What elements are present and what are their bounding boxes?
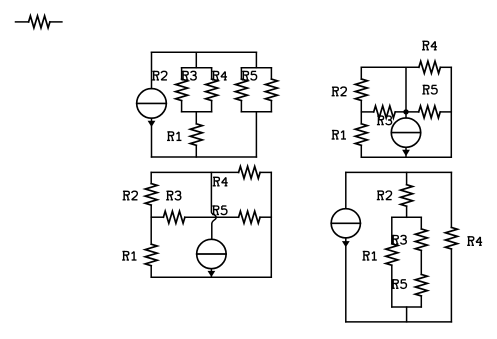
resistor symbol (legend, top-left): [16, 16, 62, 28]
wire (circuit1 loop1 top stub): [195, 52, 197, 68]
wire (circuit2 middle right): [440, 111, 451, 113]
label R3 (circuit4): [392, 235, 407, 244]
arrow (circuit4 source direction): [342, 241, 350, 247]
wire (circuit3 top rail left): [151, 171, 238, 173]
label R5 (circuit3): [212, 206, 227, 215]
resistor R1 (circuit1): [190, 112, 202, 157]
resistor R2 (circuit4): [401, 172, 413, 217]
resistor R4 (circuit4): [445, 172, 457, 322]
label R3 (circuit2): [377, 116, 392, 125]
label R4 (circuit2): [422, 41, 437, 50]
label R4 (circuit4): [467, 237, 482, 246]
resistor R1 (circuit2): [355, 112, 367, 157]
wire (circuit1 loop1 bottom edge): [182, 111, 212, 113]
wire (circuit2 right branch): [450, 67, 452, 157]
wire (circuit2 middle center): [395, 111, 419, 113]
label R5 (circuit1): [242, 71, 257, 80]
wire (circuit2 top rail right): [440, 66, 451, 68]
wire (circuit4 loop top edge): [392, 216, 422, 218]
wire (circuit2 source to bottom): [405, 147, 407, 157]
wire (circuit1 top rail): [152, 51, 257, 53]
resistor R2 (circuit2): [355, 67, 367, 112]
wire (circuit2 top rail left): [361, 66, 419, 68]
resistor R1 (circuit3): [145, 217, 157, 277]
label R2 (circuit1): [152, 71, 167, 80]
wire (circuit3 middle center): [185, 216, 239, 218]
wire (circuit3 source to bottom): [210, 269, 212, 278]
resistor R2 (circuit3): [145, 172, 157, 217]
label R1 (circuit4): [362, 252, 376, 261]
current source I1 (circuit1): [137, 89, 167, 119]
wire (circuit4 left branch lower): [345, 238, 347, 322]
label R4 (circuit1): [212, 71, 227, 80]
resistor R5 (circuit4): [415, 250, 427, 307]
label R2 (circuit3): [123, 191, 138, 200]
wire (circuit1 left branch lower): [151, 118, 153, 157]
resistor R3 (circuit4): [415, 217, 427, 250]
wire (circuit2 middle left): [361, 111, 373, 113]
wire (circuit4 loop bottom stub): [406, 307, 408, 322]
arrow (circuit1 source direction): [148, 121, 156, 127]
wire (circuit4 loop bottom edge): [392, 306, 422, 308]
wire (circuit4 bottom rail): [346, 321, 452, 323]
label R4 (circuit3): [213, 177, 228, 186]
wire (circuit1 loop2 top edge): [241, 67, 271, 69]
label R2 (circuit4): [377, 191, 392, 200]
current source I1 (circuit3): [197, 239, 226, 268]
wire (circuit4 top rail): [346, 171, 452, 173]
resistor R3 (circuit3): [163, 211, 185, 223]
wire (circuit3 top rail right): [260, 171, 271, 173]
label R5 (circuit2): [422, 85, 437, 94]
resistor (circuit1 loop2 right, unlabeled): [265, 68, 277, 112]
wire (circuit2 vertical from top): [405, 67, 407, 112]
wire (circuit1 bottom rail): [152, 156, 257, 158]
label R1 (circuit1): [167, 132, 181, 141]
resistor R3 (circuit1): [176, 68, 188, 112]
wire (circuit3 bottom rail): [151, 276, 271, 278]
label R5 (circuit4): [392, 280, 407, 289]
wire (circuit1 left branch upper): [151, 52, 153, 88]
resistor R5 (circuit2): [419, 106, 441, 118]
arrow (circuit3 source direction): [208, 271, 216, 277]
wire (circuit3 middle right): [260, 216, 271, 218]
resistor R5 (circuit1): [235, 68, 247, 112]
wire (circuit1 loop2 bottom stub): [255, 112, 257, 157]
wire (circuit2 bottom rail): [361, 156, 451, 158]
wire (circuit1 loop1 top edge): [182, 67, 212, 69]
arrow (circuit2 source direction): [402, 150, 410, 156]
resistor R4 (circuit1): [206, 68, 218, 112]
wire (circuit1 loop2 bottom edge): [241, 111, 271, 113]
label R2 (circuit2): [332, 87, 347, 96]
label R3 (circuit1): [182, 71, 197, 80]
current source I1 (circuit2): [391, 118, 420, 147]
resistor R1 (circuit4): [386, 217, 398, 307]
resistor R3 (circuit2): [374, 106, 396, 118]
resistor R5 (circuit3): [239, 211, 261, 223]
wire (circuit2 node to source): [405, 112, 407, 118]
label R1 (circuit3): [122, 252, 136, 261]
resistor R4 (circuit2): [419, 61, 441, 73]
label R1 (circuit2): [332, 131, 346, 140]
wire (circuit3 vertical with crossover): [211, 172, 216, 239]
wire (circuit1 loop2 top stub): [255, 52, 257, 68]
wire (circuit3 right branch): [270, 172, 272, 277]
node (circuit2 junction dot): [403, 109, 408, 114]
resistor R4 (circuit3): [239, 166, 261, 178]
wire (circuit4 left branch upper): [345, 172, 347, 208]
current source I1 (circuit4): [331, 209, 360, 238]
label R3 (circuit3): [166, 191, 181, 200]
wire (circuit3 middle left): [151, 216, 163, 218]
